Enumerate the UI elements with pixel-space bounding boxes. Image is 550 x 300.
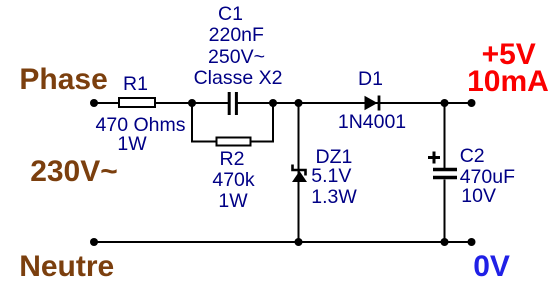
node DZ1 top junction (295, 99, 303, 107)
value 1N4001 (338, 113, 406, 133)
wire R2 parallel branch loop (192, 103, 273, 142)
node C1/R2 left junction (188, 99, 196, 107)
wire C2 vertical branch lower (444, 180, 446, 243)
node C2 bottom junction (441, 238, 449, 246)
net label 230V~ (30, 157, 118, 187)
value 250V~ (208, 48, 265, 68)
value 1.3W (311, 188, 357, 208)
net label 10mA (467, 67, 549, 97)
value 220nF (209, 26, 264, 46)
label D1 (358, 70, 383, 90)
terminal node +5V output (468, 99, 476, 107)
terminal node 0V output (468, 238, 476, 246)
label R1 (123, 75, 148, 95)
wire bottom rail (neutre to 0V terminal) (94, 241, 471, 243)
resistor R1 body (119, 98, 155, 107)
net label Neutre (19, 252, 114, 282)
C2 polarity plus sign (428, 152, 440, 164)
wire top rail left (phase terminal to C1 left plate) (94, 102, 229, 104)
diode D1 triangle (365, 96, 378, 110)
value 470k (212, 171, 254, 191)
node C2 top junction (441, 99, 449, 107)
value 10V (461, 187, 496, 207)
net label Phase (19, 65, 107, 95)
net label 0V (473, 252, 510, 282)
wire DZ1 vertical branch (298, 103, 300, 242)
zener DZ1 cathode bar with bent ends (293, 165, 306, 176)
terminal node phase input (90, 99, 98, 107)
diode D1 cathode bar (378, 96, 381, 111)
capacitor C1 right plate (235, 92, 238, 115)
label C2 (460, 147, 485, 167)
value 1W (R1) (117, 135, 146, 155)
label R2 (220, 150, 245, 170)
label DZ1 (316, 148, 353, 168)
value 5.1V (311, 167, 351, 187)
capacitor C2 bottom plate (433, 176, 457, 180)
value 470 Ohms (96, 116, 186, 136)
value Classe X2 (194, 69, 283, 89)
capacitor C2 top plate (433, 168, 457, 172)
value 1W (R2) (218, 192, 247, 212)
node C1/R2 right junction (269, 99, 277, 107)
zener DZ1 triangle (292, 171, 307, 182)
label C1 (218, 5, 243, 25)
value 470uF (460, 168, 515, 188)
wire C2 vertical branch upper (444, 103, 446, 170)
resistor R2 body (217, 138, 251, 146)
terminal node neutre input (90, 238, 98, 246)
wire top rail right (C1 right plate to +5V terminal) (237, 102, 472, 104)
net label +5V (482, 40, 536, 70)
capacitor C1 left plate (228, 92, 231, 115)
node DZ1 bottom junction (295, 238, 303, 246)
